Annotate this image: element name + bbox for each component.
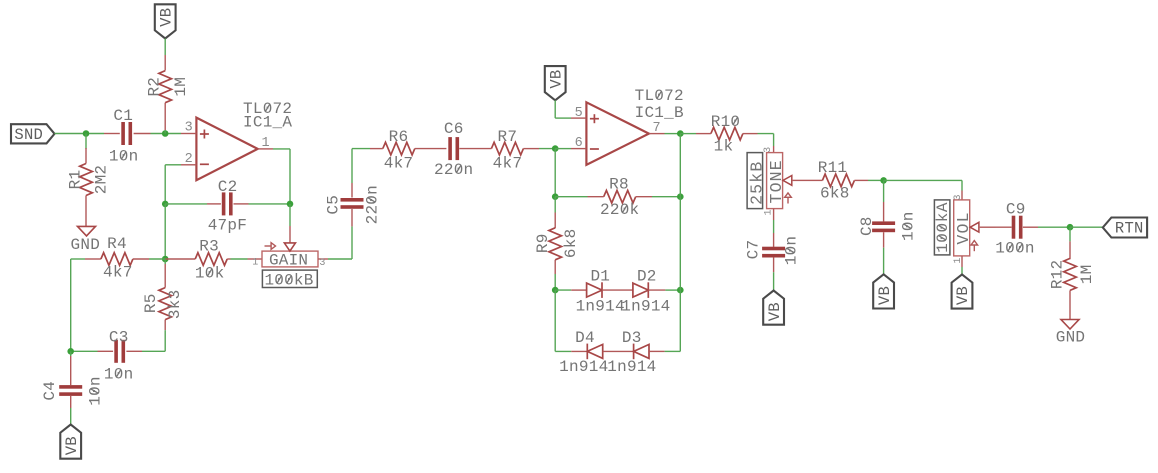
svg-text:R11: R11 — [818, 159, 848, 177]
capacitor C3 — [98, 328, 143, 383]
svg-text:C1: C1 — [113, 107, 133, 125]
pin 1 — [953, 257, 964, 263]
svg-text:47pF: 47pF — [208, 217, 247, 235]
wire — [665, 289, 680, 291]
svg-text:1M: 1M — [1078, 265, 1096, 285]
junction — [552, 193, 559, 200]
svg-text:1n914: 1n914 — [576, 297, 625, 315]
wire — [665, 133, 681, 135]
svg-text:R9: R9 — [534, 233, 552, 253]
wire — [273, 148, 290, 150]
svg-text:1n914: 1n914 — [607, 358, 656, 376]
svg-text:SND: SND — [14, 126, 43, 144]
svg-text:R1: R1 — [67, 170, 85, 190]
wire — [555, 289, 571, 291]
pin 3 — [953, 194, 964, 200]
svg-text:C4: C4 — [41, 381, 59, 401]
connector RTN — [1103, 218, 1147, 238]
svg-text:VB: VB — [766, 302, 784, 321]
wire — [602, 289, 633, 291]
svg-text:D4: D4 — [575, 329, 595, 347]
potentiometer VOL — [954, 191, 996, 268]
svg-text:GND: GND — [1056, 329, 1086, 347]
svg-text:VB: VB — [63, 436, 81, 455]
supply VB — [763, 291, 784, 325]
wire — [164, 39, 166, 56]
svg-text:VB: VB — [876, 286, 894, 305]
svg-text:TL072: TL072 — [635, 87, 684, 105]
svg-text:R6: R6 — [389, 128, 409, 146]
wire — [55, 133, 105, 135]
resistor R11 — [807, 159, 869, 202]
value 25kB — [747, 153, 766, 209]
wire — [665, 350, 681, 352]
svg-text:100n: 100n — [995, 240, 1034, 258]
svg-text:25kB: 25kB — [748, 160, 767, 204]
resistor R12 — [1048, 227, 1096, 319]
svg-text:VB: VB — [954, 286, 972, 305]
wire — [758, 133, 774, 135]
capacitor C9 — [995, 201, 1038, 258]
wire — [603, 350, 634, 352]
diode D4 — [559, 329, 608, 376]
wire — [164, 330, 166, 351]
junction — [83, 130, 90, 137]
svg-text:R3: R3 — [199, 237, 219, 255]
svg-text:1k: 1k — [714, 138, 734, 156]
svg-text:C3: C3 — [109, 328, 129, 346]
resistor R2 — [146, 55, 191, 130]
junction — [67, 348, 74, 355]
svg-text:RTN: RTN — [1115, 220, 1144, 238]
wire — [539, 148, 555, 150]
pin 1 — [252, 257, 258, 268]
pin 1 — [262, 136, 270, 151]
junction — [162, 130, 169, 137]
svg-text:D3: D3 — [622, 329, 642, 347]
svg-text:1n914: 1n914 — [621, 297, 670, 315]
wire — [961, 180, 963, 190]
wire — [352, 148, 370, 150]
svg-text:R10: R10 — [711, 113, 741, 131]
diode D3 — [607, 329, 664, 376]
svg-text:IC1_B: IC1_B — [635, 104, 684, 122]
wire — [328, 258, 352, 260]
potentiometer TONE — [767, 146, 807, 220]
capacitor C1 — [104, 107, 151, 166]
capacitor C2 — [165, 178, 290, 235]
capacitor C6 — [434, 120, 491, 179]
svg-text:1: 1 — [953, 257, 964, 263]
svg-text:1: 1 — [764, 209, 775, 215]
svg-text:1: 1 — [262, 136, 270, 151]
svg-text:VB: VB — [157, 8, 175, 27]
wire — [554, 290, 556, 351]
value 100kA — [934, 200, 952, 255]
wire — [351, 149, 353, 183]
svg-text:6k8: 6k8 — [820, 184, 850, 202]
wire — [289, 149, 291, 204]
wire — [1038, 226, 1070, 228]
pin 1 — [764, 209, 775, 215]
wire — [555, 100, 571, 118]
diode D1 — [571, 267, 625, 315]
pin 7 — [653, 121, 661, 136]
pin 2 — [185, 152, 193, 167]
junction — [162, 256, 169, 263]
pin 3 — [319, 258, 325, 269]
wire — [868, 179, 884, 181]
wire — [164, 130, 166, 134]
pin 6 — [575, 136, 583, 151]
svg-text:R7: R7 — [498, 128, 518, 146]
svg-text:6k8: 6k8 — [562, 229, 580, 259]
wire — [85, 134, 87, 150]
junction — [552, 287, 559, 294]
supply VB — [873, 274, 894, 308]
svg-text:R12: R12 — [1048, 260, 1066, 290]
svg-text:220n: 220n — [434, 161, 473, 179]
wire — [773, 134, 775, 146]
junction — [287, 201, 294, 208]
svg-text:4k7: 4k7 — [493, 154, 523, 172]
svg-text:3k3: 3k3 — [166, 290, 184, 320]
svg-text:D1: D1 — [590, 267, 610, 285]
svg-text:3: 3 — [185, 121, 193, 136]
wire — [1070, 226, 1103, 228]
supply VB — [155, 4, 176, 38]
capacitor C7 — [745, 220, 801, 291]
wire — [679, 134, 681, 197]
junction — [1067, 224, 1074, 231]
supply VB — [60, 425, 81, 459]
svg-text:IC1_A: IC1_A — [243, 114, 292, 132]
svg-text:1: 1 — [252, 257, 258, 268]
supply VB — [545, 66, 566, 100]
ground — [71, 226, 101, 254]
resistor R8 — [555, 176, 680, 220]
svg-text:2: 2 — [185, 152, 193, 167]
value 100kB — [262, 270, 317, 290]
diode D2 — [621, 267, 670, 315]
svg-text:R2: R2 — [146, 77, 164, 97]
svg-text:6: 6 — [575, 136, 583, 151]
wire — [164, 259, 166, 264]
capacitor C5 — [324, 183, 381, 226]
wire — [142, 350, 165, 352]
svg-text:3: 3 — [953, 194, 964, 200]
svg-text:C5: C5 — [324, 195, 342, 215]
svg-text:2M2: 2M2 — [93, 165, 111, 195]
connector SND — [11, 124, 55, 144]
svg-text:4k7: 4k7 — [103, 264, 133, 282]
potentiometer GAIN — [248, 226, 329, 269]
wire — [151, 133, 182, 135]
op-amp IC1_A — [181, 100, 292, 180]
resistor R7 — [491, 128, 539, 172]
resistor R4 — [71, 235, 166, 282]
junction — [880, 177, 887, 184]
wire — [555, 350, 571, 352]
junction — [552, 145, 559, 152]
svg-text:R4: R4 — [107, 235, 127, 253]
junction — [162, 201, 169, 208]
wire — [164, 204, 166, 259]
wire — [555, 148, 571, 150]
resistor R1 — [67, 148, 111, 226]
wire — [231, 258, 248, 260]
svg-text:1n914: 1n914 — [559, 358, 608, 376]
svg-text:R5: R5 — [142, 293, 160, 313]
svg-text:C9: C9 — [1006, 201, 1026, 219]
wire — [679, 197, 681, 290]
svg-text:4k7: 4k7 — [384, 154, 414, 172]
svg-text:1M: 1M — [172, 77, 190, 97]
capacitor C8 — [858, 180, 917, 274]
junction — [677, 130, 684, 137]
resistor R9 — [534, 197, 580, 290]
supply VB — [952, 274, 973, 308]
wire — [961, 267, 963, 274]
wire — [884, 179, 962, 181]
junction — [677, 193, 684, 200]
svg-text:3: 3 — [319, 258, 325, 269]
svg-text:R8: R8 — [609, 176, 629, 194]
resistor R6 — [370, 128, 446, 172]
resistor R10 — [696, 113, 758, 156]
junction — [677, 287, 684, 294]
pin 3 — [763, 147, 774, 153]
resistor R5 — [142, 264, 184, 330]
resistor R3 — [165, 237, 230, 282]
ground — [1056, 320, 1086, 347]
wire — [165, 164, 181, 166]
pin 5 — [575, 106, 583, 121]
wire — [289, 204, 291, 226]
svg-text:220k: 220k — [600, 201, 639, 219]
wire — [554, 149, 556, 197]
svg-text:3: 3 — [763, 147, 774, 153]
capacitor C4 — [41, 351, 105, 424]
svg-text:220n: 220n — [364, 185, 382, 224]
svg-text:C7: C7 — [745, 240, 763, 260]
svg-text:7: 7 — [653, 121, 661, 136]
wire — [71, 350, 98, 352]
wire — [679, 290, 681, 351]
op-amp IC1_B — [571, 87, 684, 165]
wire — [70, 259, 72, 351]
svg-text:C8: C8 — [858, 216, 876, 236]
svg-text:C6: C6 — [444, 120, 464, 138]
pin 3 — [185, 121, 193, 136]
wire — [680, 133, 696, 135]
svg-text:GAIN: GAIN — [269, 251, 308, 269]
svg-text:5: 5 — [575, 106, 583, 121]
svg-text:GND: GND — [71, 236, 101, 254]
wire — [164, 165, 166, 204]
svg-text:C2: C2 — [218, 178, 238, 196]
svg-text:D2: D2 — [637, 267, 657, 285]
svg-text:VB: VB — [547, 70, 565, 89]
wire — [351, 226, 353, 259]
